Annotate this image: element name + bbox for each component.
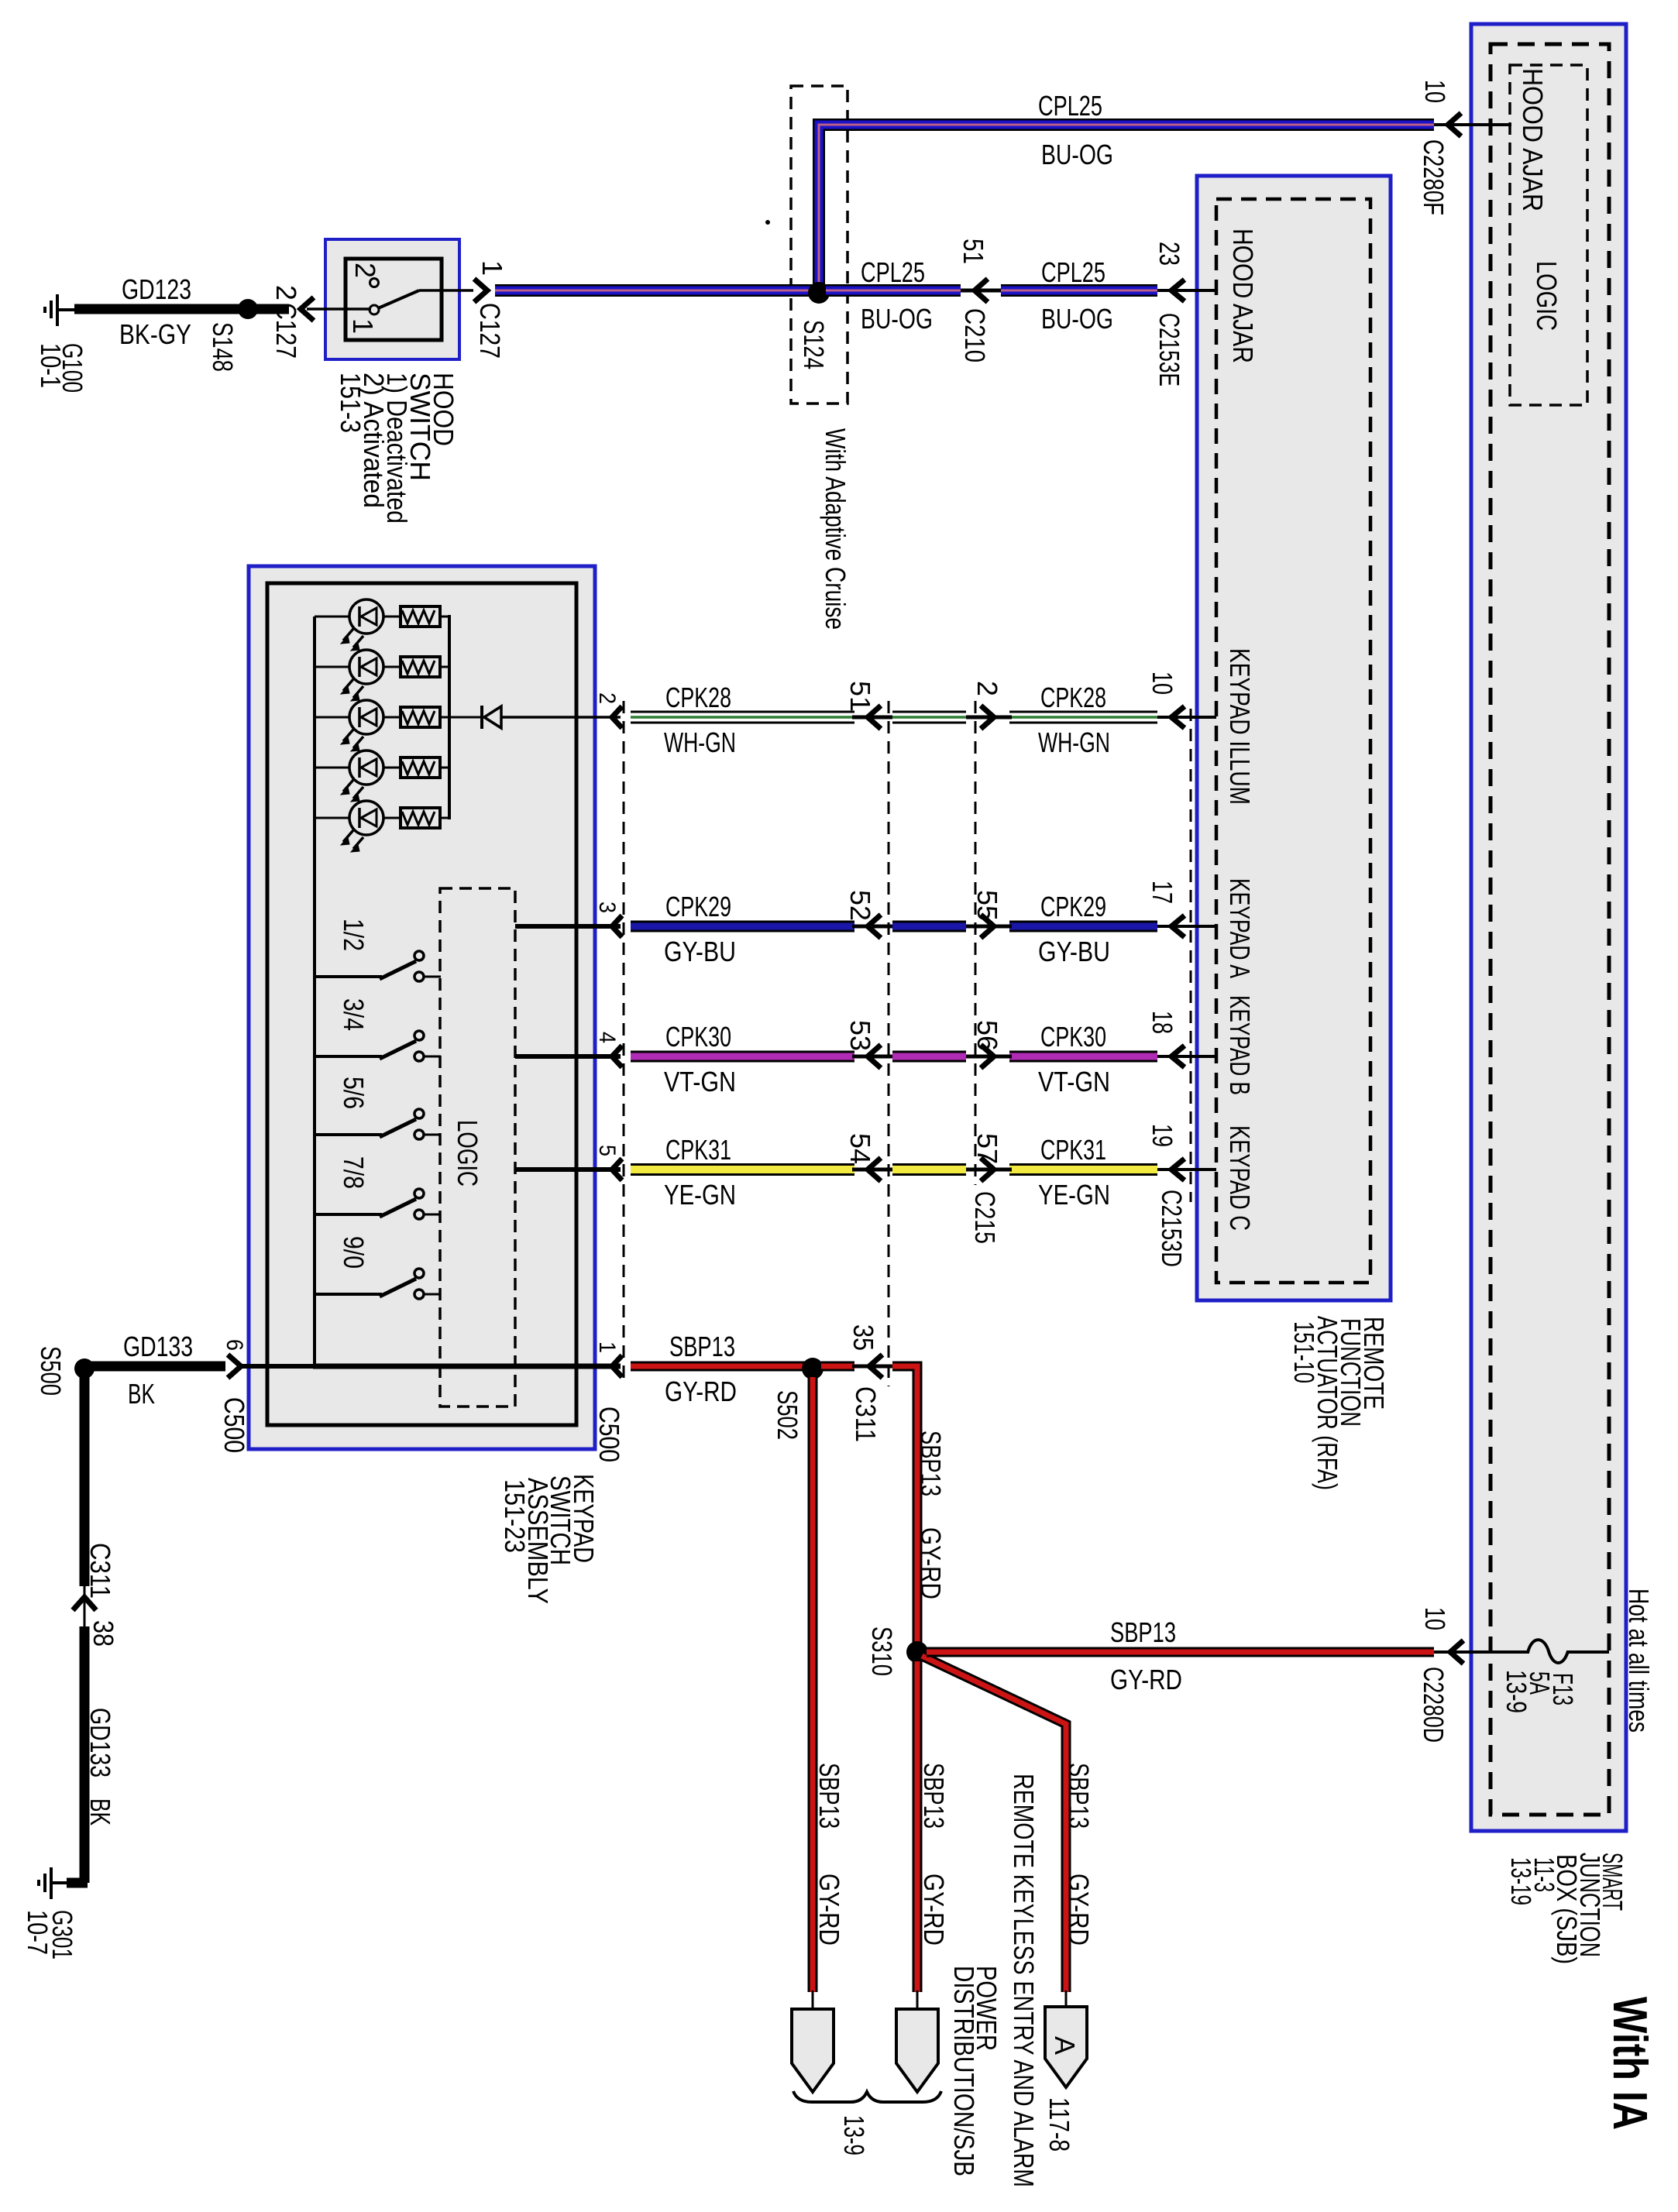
svg-text:CPL25: CPL25 — [1038, 90, 1102, 122]
resistor R1 to bus link — [440, 616, 451, 618]
svg-text:DISTRIBUTION/SJB: DISTRIBUTION/SJB — [948, 1966, 980, 2176]
ground G100 symbol — [45, 294, 76, 326]
arrow pin 10 — [1171, 706, 1185, 728]
thin link into RFA row CPK30 — [1157, 1055, 1216, 1058]
svg-text:KEYPAD B: KEYPAD B — [1224, 995, 1256, 1095]
svg-text:VT-GN: VT-GN — [1038, 1066, 1110, 1097]
connector C311 dashed line — [888, 701, 890, 1386]
wire CPK31 YE-GN C215 to RFA — [1009, 1163, 1157, 1176]
switch 1/2 contacts — [414, 951, 424, 960]
wire GD133 BK vertical lower segment — [80, 1626, 90, 1883]
svg-text:WH-GN: WH-GN — [664, 726, 736, 758]
switch 7/8 output line — [424, 1214, 441, 1216]
wire from arrow into keypad box — [239, 1364, 318, 1369]
connector C2280F thin line into SJB logic box — [1434, 123, 1511, 126]
svg-text:HOOD AJAR: HOOD AJAR — [1227, 228, 1259, 363]
LED 4 feed line — [315, 767, 350, 769]
resistor R5 — [401, 808, 440, 828]
svg-text:151-3: 151-3 — [335, 373, 366, 433]
arrow 55 — [981, 915, 994, 938]
svg-text:VT-GN: VT-GN — [664, 1066, 736, 1097]
svg-text:S502: S502 — [772, 1390, 803, 1440]
wire CPL25 BU-OG C210 to C2153E — [1001, 284, 1157, 297]
svg-text:CPK29: CPK29 — [665, 891, 731, 922]
wire SBP13 GY-RD keypad pin1 to S502 — [631, 1362, 806, 1372]
resistor R1 — [401, 606, 440, 627]
arrow 51 — [868, 706, 881, 729]
thin link at C215 row CPK28 — [966, 716, 1012, 720]
svg-text:GY-RD: GY-RD — [915, 1527, 947, 1599]
svg-text:S148: S148 — [207, 322, 239, 372]
svg-text:A: A — [1049, 2036, 1081, 2055]
svg-text:WH-GN: WH-GN — [1038, 726, 1110, 758]
keypad bottom bus to pin 1 — [313, 1364, 621, 1369]
wire CPK29 GY-BU keypad to C311 — [631, 921, 854, 933]
connector C210 arrow 51 — [975, 279, 988, 302]
connector C311 arrow 35 — [869, 1355, 882, 1378]
svg-text:CPL25: CPL25 — [861, 256, 925, 288]
svg-text:KEYPAD C: KEYPAD C — [1224, 1125, 1256, 1231]
SJB inner dashed border — [1491, 44, 1609, 1815]
switch 7/8 blade — [380, 1199, 416, 1217]
arrow 52 — [868, 915, 881, 938]
arrow 57 — [981, 1158, 994, 1181]
keypad pin 1 arrow — [612, 1355, 622, 1377]
wire GD123 BK-GY from G100 to S148 — [74, 304, 245, 314]
LED 1 — [341, 599, 383, 651]
thin link at C215 row CPK29 — [966, 925, 1012, 929]
connector C2280F arrow 10 — [1448, 113, 1461, 136]
svg-text:GD123: GD123 — [122, 273, 191, 305]
svg-text:SBP13: SBP13 — [1063, 1763, 1095, 1829]
svg-text:2: 2 — [270, 285, 302, 301]
splice S310 — [906, 1641, 928, 1663]
SJB hood-ajar logic dashed box — [1510, 65, 1587, 405]
connector C500 pin 6 arrow — [228, 1355, 241, 1378]
arrow pin 17 — [1171, 915, 1185, 937]
hood switch box outline — [325, 239, 459, 359]
svg-text:7/8: 7/8 — [338, 1156, 370, 1189]
svg-text:53: 53 — [844, 1020, 876, 1051]
connector C311 thin link — [852, 1365, 892, 1369]
svg-text:GY-RD: GY-RD — [918, 1874, 950, 1946]
svg-text:10: 10 — [1147, 671, 1178, 695]
svg-text:S500: S500 — [35, 1346, 67, 1396]
wire CPK28 WH-GN C215 to RFA — [1009, 711, 1157, 724]
svg-text:GY-BU: GY-BU — [1038, 936, 1110, 967]
switch 5/6 blade — [380, 1119, 416, 1137]
svg-text:CPK28: CPK28 — [1040, 682, 1106, 713]
connector C311 up arrow — [73, 1597, 96, 1610]
thin link at C215 row CPK31 — [966, 1168, 1012, 1172]
LED 5 — [341, 801, 383, 852]
svg-text:KEYPAD A: KEYPAD A — [1224, 878, 1256, 978]
svg-text:BU-OG: BU-OG — [1041, 303, 1113, 335]
resistor R4 — [401, 757, 440, 778]
wire into hood switch — [307, 307, 371, 311]
svg-text:2: 2 — [594, 692, 620, 704]
connector C215 dashed line — [975, 701, 977, 1185]
keypad pin 4 arrow — [612, 1046, 622, 1067]
splice S500 — [74, 1358, 95, 1379]
svg-text:CPL25: CPL25 — [1041, 256, 1105, 288]
svg-text:LOGIC: LOGIC — [452, 1120, 483, 1187]
switch 1/2 output line — [424, 976, 441, 978]
keypad pin 3 line — [515, 924, 621, 929]
hood switch inner black rect — [346, 259, 442, 340]
wire CPK28 WH-GN jumper — [892, 711, 966, 724]
wire stub S148 to C127 — [256, 304, 289, 314]
hood switch contact 1 — [370, 305, 379, 314]
svg-text:10: 10 — [1419, 80, 1451, 103]
splice S502 — [802, 1358, 824, 1379]
LED 2 feed line — [315, 666, 350, 668]
svg-text:C215: C215 — [969, 1191, 1001, 1244]
svg-text:HOOD AJAR: HOOD AJAR — [1517, 68, 1549, 211]
LED 2 — [341, 650, 383, 701]
wire GD133 BK vertical upper segment — [80, 1376, 90, 1586]
svg-text:13-9: 13-9 — [838, 2115, 870, 2155]
ground G301 symbol — [39, 1867, 51, 1899]
splice S148 — [238, 299, 258, 319]
switch 5/6 output line — [424, 1134, 441, 1136]
wire SBP13 GY-RD S310 diagonal to RKE module — [922, 1656, 1066, 1992]
svg-text:C2153E: C2153E — [1154, 313, 1185, 386]
svg-text:1/2: 1/2 — [338, 919, 370, 951]
svg-text:CPK28: CPK28 — [665, 682, 731, 713]
thin link into RFA row CPK28 — [1157, 716, 1216, 719]
keypad right bus — [448, 615, 451, 819]
svg-text:With Adaptive Cruise: With Adaptive Cruise — [820, 428, 851, 630]
svg-text:GY-RD: GY-RD — [1063, 1874, 1095, 1946]
connector C500 dashed line — [623, 701, 625, 1385]
svg-text:SBP13: SBP13 — [813, 1763, 845, 1829]
wire CPL25 BU-OG hood switch to S124 — [495, 284, 814, 297]
wire CPK29 GY-BU C215 to RFA — [1009, 921, 1157, 933]
svg-text:S124: S124 — [798, 320, 830, 369]
pentagon connector S310 branch — [916, 1990, 919, 2011]
svg-text:51: 51 — [844, 681, 876, 712]
hood switch output line — [419, 289, 473, 292]
LED 5 feed line — [315, 817, 350, 819]
svg-text:35: 35 — [848, 1324, 879, 1351]
connector C127 right arrow — [474, 279, 487, 302]
resistor R2 to bus link — [440, 666, 451, 668]
svg-text:5: 5 — [594, 1145, 620, 1156]
svg-text:C311: C311 — [850, 1386, 882, 1442]
LED 3 feed line — [315, 716, 350, 719]
wire SBP13 GY-RD S310 down to power distribution — [913, 1661, 923, 1992]
svg-text:2: 2 — [349, 263, 381, 278]
connector C2153E arrow 23 — [1171, 280, 1185, 301]
switch 1/2 blade — [380, 961, 416, 979]
svg-text:KEYPAD ILLUM: KEYPAD ILLUM — [1224, 648, 1256, 805]
svg-text:19: 19 — [1147, 1124, 1178, 1147]
switch 3/4 output line — [424, 1056, 441, 1058]
wire CPK28 WH-GN keypad to C311 — [631, 711, 854, 724]
svg-text:1: 1 — [594, 1341, 620, 1353]
svg-text:C500: C500 — [593, 1407, 625, 1462]
svg-text:LOGIC: LOGIC — [1531, 261, 1563, 331]
svg-text:YE-GN: YE-GN — [1038, 1179, 1110, 1211]
svg-text:CPK31: CPK31 — [1040, 1134, 1106, 1166]
svg-text:C2280F: C2280F — [1418, 139, 1449, 215]
pentagon connector A to RKE — [1065, 1990, 1068, 2008]
fuse output line — [1566, 1650, 1609, 1654]
svg-text:6: 6 — [222, 1339, 247, 1351]
svg-text:BK: BK — [128, 1378, 155, 1410]
hood switch blade — [378, 290, 419, 308]
svg-text:BU-OG: BU-OG — [861, 303, 933, 335]
svg-text:BK: BK — [84, 1798, 116, 1826]
wire CPK31 YE-GN keypad to C311 — [631, 1163, 854, 1176]
diode D1 — [482, 706, 501, 729]
arrow pin 18 — [1171, 1046, 1185, 1067]
resistor R3 to bus link — [440, 716, 451, 719]
LED 3 to resistor link — [383, 716, 401, 719]
svg-text:17: 17 — [1147, 881, 1178, 904]
switch 5/6 feed line — [313, 1133, 382, 1136]
svg-text:13-19: 13-19 — [1505, 1857, 1537, 1905]
wire CPK30 VT-GN keypad to C311 — [631, 1051, 854, 1063]
with adaptive cruise dashed box — [791, 86, 848, 404]
wire SBP13 GY-RD S310 to C2280D — [927, 1647, 1434, 1657]
svg-text:54: 54 — [844, 1133, 876, 1164]
svg-text:56: 56 — [971, 1020, 1003, 1051]
svg-text:BU-OG: BU-OG — [1041, 139, 1113, 170]
hood switch contact 2 — [370, 279, 379, 287]
svg-text:SBP13: SBP13 — [915, 1431, 947, 1496]
arrow 54 — [868, 1158, 881, 1181]
svg-text:CPK31: CPK31 — [665, 1134, 731, 1166]
LED 4 — [341, 750, 383, 802]
switch 5/6 contacts — [414, 1109, 424, 1118]
LED 3 — [341, 700, 383, 751]
resistor R3 — [401, 707, 440, 727]
svg-text:C127: C127 — [270, 303, 302, 359]
svg-text:C311: C311 — [84, 1543, 116, 1599]
ground G301 stub — [51, 1881, 70, 1884]
svg-text:GD133: GD133 — [123, 1331, 193, 1362]
svg-text:SBP13: SBP13 — [918, 1763, 950, 1829]
keypad pin 3 arrow — [612, 915, 622, 937]
switch 7/8 contacts — [414, 1189, 424, 1198]
wire CPK31 YE-GN jumper — [892, 1163, 966, 1176]
switch 7/8 feed line — [313, 1213, 382, 1216]
thin link at C311 row CPK31 — [852, 1168, 892, 1172]
svg-text:5/6: 5/6 — [338, 1077, 370, 1109]
thin link at C311 row CPK28 — [852, 716, 892, 720]
arrow 56 — [981, 1045, 994, 1068]
stray dot — [765, 220, 770, 225]
keypad pin 5 line — [515, 1167, 621, 1172]
LED 1 feed line — [315, 616, 350, 618]
keypad switch assembly box outline — [249, 566, 595, 1449]
LED 1 to resistor link — [383, 616, 401, 618]
svg-text:SBP13: SBP13 — [669, 1331, 735, 1362]
svg-text:C500: C500 — [218, 1397, 250, 1453]
fuse F13 5A — [1528, 1640, 1568, 1663]
svg-text:2: 2 — [971, 681, 1003, 696]
svg-text:151-10: 151-10 — [1288, 1321, 1320, 1383]
LED 5 to resistor link — [383, 817, 401, 819]
svg-text:C210: C210 — [959, 308, 991, 362]
switch 9/0 output line — [424, 1293, 441, 1296]
keypad pin 4 line — [515, 1054, 621, 1059]
svg-text:10: 10 — [1419, 1607, 1451, 1630]
svg-text:BK-GY: BK-GY — [119, 318, 191, 350]
svg-text:1: 1 — [347, 318, 379, 334]
corner to ground G301 — [67, 1878, 88, 1888]
svg-text:CPK30: CPK30 — [665, 1021, 731, 1053]
svg-text:117-8: 117-8 — [1044, 2097, 1075, 2152]
svg-text:9/0: 9/0 — [338, 1236, 370, 1269]
svg-text:GY-RD: GY-RD — [665, 1376, 737, 1407]
connector C210 thin line — [961, 289, 1001, 293]
svg-text:18: 18 — [1147, 1011, 1178, 1034]
wire CPL25 BU-OG vertical and top run to C2280F — [819, 125, 1434, 290]
svg-text:1: 1 — [476, 260, 508, 276]
wire SBP13 GY-RD S502 to C311 — [821, 1362, 854, 1372]
svg-text:GY-RD: GY-RD — [813, 1874, 845, 1946]
switch 3/4 contacts — [414, 1031, 424, 1040]
brace 13-9 — [793, 2091, 941, 2102]
connector C2153E thin line into RFA — [1157, 289, 1216, 292]
svg-text:GD133: GD133 — [84, 1708, 116, 1777]
wire CPK29 GY-BU jumper — [892, 921, 966, 933]
svg-text:YE-GN: YE-GN — [664, 1179, 736, 1211]
svg-text:38: 38 — [88, 1620, 119, 1647]
svg-text:151-23: 151-23 — [499, 1479, 531, 1553]
keypad pin 2 line — [501, 716, 621, 719]
svg-text:CPK29: CPK29 — [1040, 891, 1106, 922]
keypad LOGIC dashed box — [440, 888, 515, 1407]
wire SBP13 GY-RD S502 down to power distribution — [808, 1377, 818, 1992]
svg-text:52: 52 — [844, 890, 876, 921]
svg-text:55: 55 — [971, 890, 1003, 921]
resistor R2 — [401, 657, 440, 677]
wire CPK30 VT-GN C215 to RFA — [1009, 1051, 1157, 1063]
RFA inner dashed border — [1216, 199, 1370, 1283]
switch 9/0 contacts — [414, 1269, 424, 1278]
svg-text:S310: S310 — [866, 1626, 898, 1676]
LED 4 to resistor link — [383, 767, 401, 769]
wire CPL25 BU-OG S124 to C210 — [826, 284, 961, 297]
wire GD133 BK from S500 to keypad pin 6 — [89, 1362, 225, 1372]
svg-text:C127: C127 — [474, 303, 506, 359]
switch 9/0 feed line — [313, 1293, 382, 1296]
thin link into RFA row CPK29 — [1157, 925, 1216, 928]
resistor R5 to bus link — [440, 817, 451, 819]
keypad pin 5 arrow — [612, 1159, 622, 1180]
svg-text:C2153D: C2153D — [1156, 1190, 1188, 1267]
switch 3/4 feed line — [313, 1055, 382, 1058]
wire CPK30 VT-GN jumper — [892, 1051, 966, 1063]
switch 9/0 blade — [380, 1279, 416, 1297]
svg-text:GY-RD: GY-RD — [1110, 1664, 1182, 1695]
remote function actuator RFA outline — [1197, 176, 1391, 1300]
thin link into RFA row CPK31 — [1157, 1168, 1216, 1171]
svg-text:3/4: 3/4 — [338, 998, 370, 1031]
keypad pin 2 arrow — [612, 706, 622, 728]
smart junction box SJB outline — [1471, 24, 1626, 1831]
diode D1 feed line — [449, 716, 482, 719]
wire SBP13 GY-RD C311 corner down to S310 — [892, 1366, 917, 1652]
connector C2280D arrow 10 — [1450, 1640, 1463, 1664]
svg-text:REMOTE KEYLESS ENTRY AND ALARM: REMOTE KEYLESS ENTRY AND ALARM — [1008, 1774, 1040, 2187]
connector C2153D dashed line — [1190, 709, 1192, 1202]
svg-text:With IA: With IA — [1603, 1997, 1656, 2130]
svg-text:23: 23 — [1154, 242, 1185, 266]
svg-text:10-7: 10-7 — [22, 1910, 53, 1955]
svg-text:13-9: 13-9 — [1501, 1670, 1532, 1713]
arrow 53 — [868, 1045, 881, 1068]
svg-text:10-1: 10-1 — [35, 343, 67, 388]
connector C2280D thin line into SJB — [1434, 1650, 1529, 1654]
thin link at C311 row CPK29 — [852, 925, 892, 929]
arrow 2 — [981, 706, 994, 729]
svg-text:GY-BU: GY-BU — [664, 936, 736, 967]
LED 2 to resistor link — [383, 666, 401, 668]
svg-text:4: 4 — [594, 1032, 620, 1043]
svg-text:CPK30: CPK30 — [1040, 1021, 1106, 1053]
keypad left bus — [313, 617, 316, 1366]
thin link at C311 row CPK30 — [852, 1055, 892, 1059]
switch 3/4 blade — [380, 1041, 416, 1059]
thin joint at C311 — [84, 1584, 86, 1626]
svg-text:51: 51 — [958, 239, 989, 264]
keypad inner black rect — [267, 583, 576, 1425]
svg-text:SBP13: SBP13 — [1110, 1616, 1176, 1648]
connector C127 left arrow — [301, 297, 314, 321]
pentagon connector S502 branch — [812, 1990, 814, 2011]
switch 1/2 feed line — [313, 975, 382, 978]
splice S124 — [808, 282, 830, 304]
svg-text:57: 57 — [971, 1133, 1003, 1164]
svg-text:Hot at all times: Hot at all times — [1623, 1589, 1655, 1733]
svg-text:3: 3 — [594, 902, 620, 913]
arrow pin 19 — [1171, 1159, 1185, 1180]
resistor R4 to bus link — [440, 767, 451, 769]
thin link at C215 row CPK30 — [966, 1055, 1012, 1059]
svg-text:C2280D: C2280D — [1418, 1667, 1449, 1743]
